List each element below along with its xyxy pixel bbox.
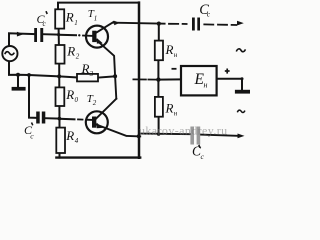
- label T1: [88, 8, 98, 23]
- wire base lead T2 dash-dot: [59, 118, 74, 121]
- svg-text:н: н: [174, 51, 178, 59]
- wire Rn2 bottom: [158, 117, 160, 135]
- label En: [194, 71, 208, 90]
- svg-text:R: R: [81, 61, 90, 76]
- label Cc output: [199, 2, 211, 19]
- resistor R2: [56, 45, 65, 64]
- wire bottom rail: [56, 156, 140, 158]
- capacitor C'c bottom gray plates: [190, 127, 194, 145]
- symbol tilde upper right: [236, 49, 245, 52]
- label R4: [65, 128, 78, 145]
- svg-text:н: н: [204, 81, 208, 90]
- ground bar right: [235, 90, 250, 94]
- resistor R3: [77, 74, 98, 82]
- svg-text:R: R: [65, 128, 74, 143]
- wire Rn to junction to Rn2: [157, 60, 159, 97]
- wire T2 collector diagonal: [96, 99, 117, 119]
- wire T2 emitter: [97, 125, 141, 137]
- arrow bottom right end: [238, 134, 245, 139]
- resistor R4: [56, 128, 65, 153]
- wire output dash-dot segments: [169, 23, 178, 25]
- wire top rail and right common vertical: [58, 3, 139, 10]
- svg-text:1: 1: [94, 15, 98, 23]
- wire cap to base node: [43, 33, 59, 35]
- label C'c upper: [37, 11, 48, 28]
- svg-text:R: R: [65, 9, 74, 24]
- label R3: [81, 61, 94, 78]
- svg-text:R: R: [165, 42, 174, 57]
- svg-text:н: н: [174, 110, 178, 118]
- wire right column Rn top: [158, 24, 160, 41]
- capacitor C'c input upper plates: [34, 28, 37, 42]
- svg-text:c: c: [201, 152, 205, 161]
- label T2: [87, 93, 97, 107]
- arrow on collector output wire: [114, 21, 119, 26]
- junction node dots: [57, 33, 60, 36]
- label Rn lower: [165, 101, 178, 118]
- svg-text:R: R: [65, 87, 74, 102]
- wire dashed link T2 collector to junction: [133, 78, 146, 80]
- wire R1-R2 link: [58, 29, 60, 45]
- svg-text:c: c: [43, 19, 47, 28]
- arrow on input wire: [17, 32, 24, 37]
- resistor Rn lower: [155, 97, 163, 117]
- wire input top from source: [9, 33, 34, 45]
- symbol tilde lower right: [237, 110, 245, 112]
- svg-text:R: R: [165, 101, 174, 116]
- transistor T2: [86, 111, 108, 133]
- wire T1 emitter down to T2 collector: [97, 40, 117, 98]
- label R2: [66, 43, 79, 60]
- wire En left lead: [158, 78, 181, 80]
- svg-text:0: 0: [75, 96, 79, 104]
- capacitor Cc output plates: [192, 18, 195, 31]
- wire output line solid: [113, 23, 164, 24]
- label plus: [225, 69, 230, 74]
- label Rn upper: [165, 42, 178, 59]
- svg-text:ukarov-andrey.ru: ukarov-andrey.ru: [139, 124, 228, 138]
- wire R4 bottom: [59, 153, 61, 158]
- wire down to lower cap: [29, 75, 36, 118]
- wire T1 collector: [96, 22, 114, 33]
- svg-text:c: c: [30, 132, 34, 141]
- svg-text:4: 4: [75, 137, 79, 145]
- wire cap2 to node: [45, 117, 59, 119]
- ground bar left: [12, 87, 26, 91]
- svg-text:R: R: [66, 43, 75, 58]
- label R0: [65, 87, 78, 104]
- svg-text:3: 3: [89, 70, 94, 78]
- transistor T1: [86, 26, 108, 48]
- resistor R1: [55, 9, 64, 28]
- wire base lead T1 dash-dot: [59, 34, 76, 36]
- ground: [17, 75, 19, 87]
- wire bottom output line: [139, 133, 190, 136]
- label R1: [65, 9, 78, 27]
- wire R2 to mid rail to R0: [58, 64, 60, 88]
- resistor R0: [56, 87, 65, 106]
- svg-text:2: 2: [76, 52, 80, 60]
- wire R3 right lead to emitter junction: [98, 76, 115, 77]
- resistor Rn upper: [155, 41, 163, 61]
- label C'c lower: [24, 123, 34, 141]
- svg-text:2: 2: [93, 99, 97, 107]
- En block: [181, 66, 217, 95]
- wire En right lead to ground: [217, 79, 242, 90]
- svg-text:1: 1: [74, 19, 78, 27]
- label minus: [172, 68, 177, 70]
- wire AC bottom and mid rail: [9, 62, 77, 78]
- AC source G1: [2, 46, 17, 61]
- capacitor C'c input lower plates: [36, 112, 40, 124]
- wire R0 to node to R4: [58, 106, 60, 128]
- arrow output right end: [237, 21, 244, 26]
- label C'c bottom: [192, 144, 205, 161]
- svg-text:c: c: [207, 9, 211, 18]
